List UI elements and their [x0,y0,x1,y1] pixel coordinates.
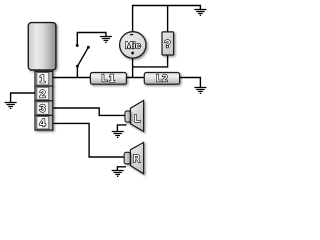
wire L1 to L2 junction [126,77,144,79]
component ? (unknown) U1 [162,32,174,55]
ground middle (switch) [100,37,112,43]
svg-text:3: 3 [40,103,46,115]
connector pin 4 [35,115,53,130]
svg-text:2: 2 [40,88,46,100]
connector pin 1 [35,72,53,87]
wire pin2 to left ground [11,93,35,103]
svg-text:Mic: Mic [125,40,141,51]
ground speaker L [112,132,124,138]
svg-text:4: 4 [40,118,47,130]
connector pin 3 [35,101,53,116]
lamp L2 [144,73,179,85]
wire speaker L ground tap [117,125,126,132]
ground speaker R [112,171,124,177]
wire Mic top to top rail [133,6,201,32]
wire pin3 to speaker L [53,108,125,115]
wire speaker R ground tap [117,167,126,171]
wire L2 to right ground [180,78,201,88]
speaker R [124,142,143,173]
svg-text:?: ? [164,38,171,50]
wire switch riser [76,66,78,77]
wire pin1 to L1 [53,77,91,79]
switch S1 [76,44,90,68]
wire pin4 to speaker R [53,123,124,157]
ground right of L2 [194,88,206,94]
connector pin 2 [35,86,53,101]
ground top right [194,10,206,16]
connector J1 body [28,23,56,70]
speaker L [125,100,144,131]
wire Mic bottom to ? bottom [133,55,168,67]
ground left [5,103,17,109]
wire junction to Mic bottom [132,58,134,78]
microphone Mic [120,32,146,58]
lamp L1 [90,73,126,85]
svg-text:L: L [102,74,108,85]
svg-text:L2: L2 [156,74,168,85]
svg-text:R: R [133,154,141,165]
wire switch to middle ground [77,33,106,46]
svg-text:L: L [134,114,140,125]
wire ? top to top rail [167,6,169,32]
